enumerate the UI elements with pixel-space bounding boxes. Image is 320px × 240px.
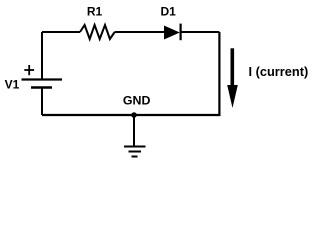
svg-text:D1: D1 — [161, 5, 177, 19]
wire top-right segment — [181, 31, 220, 33]
svg-text:V1: V1 — [5, 78, 20, 92]
wire bottom — [42, 114, 221, 116]
wire top-middle segment — [115, 31, 164, 33]
battery V1 — [22, 80, 63, 88]
current direction arrow — [227, 48, 238, 108]
wire top-left segment — [42, 31, 80, 33]
svg-text:I (current): I (current) — [249, 64, 309, 79]
svg-text:GND: GND — [123, 93, 151, 107]
junction node dot — [131, 112, 137, 118]
wire left upper — [41, 32, 43, 80]
wire right side — [218, 32, 220, 115]
diode D1 — [164, 24, 181, 41]
wire left lower — [41, 88, 43, 116]
resistor R1 — [80, 25, 115, 39]
svg-text:R1: R1 — [87, 5, 103, 19]
plus sign — [24, 65, 34, 75]
ground — [124, 115, 146, 157]
